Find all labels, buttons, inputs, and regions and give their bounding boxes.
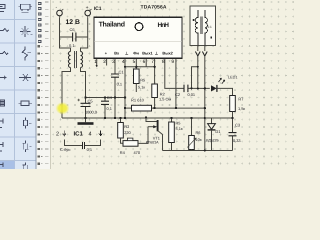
svg-text:R5: R5 <box>176 121 181 126</box>
pin6 stub <box>145 58 147 66</box>
pin7 stub <box>154 58 156 67</box>
junction at 232.5,118 <box>231 117 233 119</box>
svg-text:TDA7056A: TDA7056A <box>141 5 167 11</box>
pin5 stub <box>135 58 137 69</box>
palette r6c1 bracket <box>0 119 3 128</box>
svg-text:7: 7 <box>151 59 154 65</box>
transistor VT1 <box>146 118 163 151</box>
canvas edge <box>49 0 52 169</box>
pin numbers <box>94 59 174 65</box>
palette r1c1 partial box <box>0 5 5 12</box>
svg-text:+: + <box>86 5 89 11</box>
wire pin4 column <box>124 58 126 118</box>
palette r4c2 star with leads <box>19 74 31 81</box>
wire right column lower <box>204 57 206 151</box>
resistor R6 trimmer <box>187 118 195 151</box>
svg-text:1000,0: 1000,0 <box>85 109 98 114</box>
junction at 146,117.5 <box>145 116 147 118</box>
junction at 154.6,108.1 <box>153 107 155 109</box>
wire rail A <box>86 97 126 99</box>
wire mid rail right <box>205 117 233 119</box>
capacitor C4 <box>101 98 109 119</box>
junction at 197.8,88.4 <box>197 87 199 89</box>
resistor R5b <box>169 118 175 151</box>
transformer T1 primary winding <box>69 52 71 68</box>
output transformer box <box>190 6 215 46</box>
junction at 197.8,66.8 <box>197 66 199 68</box>
svg-text:R7: R7 <box>238 97 244 102</box>
pin function labels <box>105 51 174 56</box>
junction at 105,97.5 <box>104 96 106 98</box>
capacitor C3 <box>229 118 237 151</box>
grid dots <box>52 1 294 165</box>
svg-text:470: 470 <box>134 150 141 155</box>
svg-text:R3: R3 <box>124 124 129 129</box>
resistor R4 trimmer <box>123 127 148 147</box>
svg-text:HnH: HnH <box>158 22 170 29</box>
ot right winding <box>205 10 208 46</box>
bypass note block <box>56 131 102 152</box>
palette r2c1 squiggle <box>0 29 9 32</box>
resistor R2 body <box>152 67 158 108</box>
ruler ticks <box>45 2 49 164</box>
resistor R1 <box>125 105 205 111</box>
palette r7c1 bracket2 <box>0 142 3 151</box>
svg-text:Вх: Вх <box>114 51 120 56</box>
svg-text:C1: C1 <box>119 70 125 75</box>
palette r3c2 zigzag vertical <box>22 47 32 61</box>
svg-text:Фн: Фн <box>133 51 139 56</box>
svg-text:9: 9 <box>171 59 174 65</box>
svg-text:0,1: 0,1 <box>117 81 122 86</box>
svg-text:3: 3 <box>112 59 115 65</box>
junction dots <box>84 65 233 152</box>
note capacitor plates <box>83 142 85 149</box>
chevron left stub <box>197 46 199 51</box>
junction at 204.8,88.4 <box>204 87 206 89</box>
wire right supply <box>81 18 88 52</box>
svg-text:1: 1 <box>94 59 97 65</box>
svg-text:Вых1: Вых1 <box>142 51 153 56</box>
palette r5c1 block <box>0 100 5 106</box>
junction at 204.8,150.5 <box>204 149 206 151</box>
svg-text:⊥: ⊥ <box>155 51 159 56</box>
ot left winding <box>195 10 198 46</box>
note wire bracket <box>64 140 100 146</box>
wire mid rail <box>62 117 205 119</box>
transformer T1 secondary winding <box>81 52 83 68</box>
resistor R3 <box>118 118 124 143</box>
svg-text:C2: C2 <box>175 92 181 97</box>
component palette background <box>0 0 36 169</box>
capacitor C5 electrolytic <box>78 98 91 119</box>
svg-text:5,1к: 5,1к <box>138 84 145 89</box>
chip logo circle <box>135 23 143 31</box>
diode D1 <box>208 118 216 151</box>
palette r6c2 vertical component <box>24 118 32 129</box>
junction at 85.5,97.5 <box>84 96 86 98</box>
svg-text:C3: C3 <box>235 122 241 127</box>
svg-text:D1: D1 <box>215 129 221 134</box>
svg-text:0,1: 0,1 <box>69 43 75 48</box>
terminal minus <box>57 9 64 18</box>
toolbar strip <box>37 0 51 169</box>
junction at 154.6,66.8 <box>153 66 155 68</box>
junction at 136.3,66.8 <box>135 66 137 68</box>
toolbar ruler specks <box>38 2 43 165</box>
svg-text:8: 8 <box>162 59 165 65</box>
chevron right <box>202 52 207 57</box>
wire column pin3 gnd <box>114 98 116 119</box>
pin9 wire <box>175 58 177 108</box>
junction at 85.5,118 <box>84 117 86 119</box>
note arrow 2 <box>63 131 66 136</box>
svg-text:R5: R5 <box>140 77 145 82</box>
capacitor C6 <box>60 33 88 42</box>
junction at 171.5,118 <box>170 117 172 119</box>
wire bottom rail <box>163 150 233 152</box>
svg-text:0,01: 0,01 <box>188 92 196 97</box>
svg-text:Вых2: Вых2 <box>162 51 173 56</box>
svg-text:0,33: 0,33 <box>233 138 241 143</box>
svg-text:5,1к: 5,1к <box>176 126 183 131</box>
palette selected cell <box>0 161 15 169</box>
svg-text:C4: C4 <box>107 95 113 100</box>
svg-text:10к: 10к <box>196 137 202 142</box>
ground <box>78 118 94 124</box>
junction at 105,118 <box>104 117 106 119</box>
capacitor C2 <box>184 85 188 93</box>
canvas background <box>50 0 300 169</box>
junction at 115,97.5 <box>114 96 116 98</box>
junction at 125,108.1 <box>124 107 126 109</box>
svg-text:R6: R6 <box>196 130 201 135</box>
junction at 115,118 <box>114 117 116 119</box>
IC1 block <box>94 17 182 65</box>
svg-text:C5: C5 <box>88 99 94 104</box>
terminal plus <box>85 9 92 18</box>
junction at 191.5,88.4 <box>190 87 192 89</box>
resistor R5a body <box>134 69 140 92</box>
svg-text:IC1: IC1 <box>74 131 84 138</box>
junction at 125,66.8 <box>124 66 126 68</box>
svg-text:R1 610: R1 610 <box>131 97 145 102</box>
svg-text:220: 220 <box>124 130 131 135</box>
junction at 96.7,65.8 <box>96 65 98 67</box>
svg-text:4: 4 <box>89 131 92 137</box>
svg-text:2: 2 <box>56 131 59 137</box>
chevron left <box>195 52 200 57</box>
pin1 stub <box>96 58 98 65</box>
svg-text:6: 6 <box>143 59 146 65</box>
ot polarity dots <box>193 19 195 21</box>
svg-text:0,1: 0,1 <box>87 147 92 152</box>
junction at 204.8,118 <box>204 117 206 119</box>
svg-text:R4: R4 <box>120 150 126 155</box>
ot core <box>201 17 202 35</box>
pin8 wire to C2 <box>165 57 210 89</box>
wire left supply <box>60 18 71 52</box>
wire T1 right bottom <box>81 68 86 98</box>
svg-text:1,5к: 1,5к <box>238 106 245 111</box>
svg-text:С-бун: С-бун <box>60 147 70 152</box>
palette grid lines <box>0 0 36 169</box>
capacitor C1 <box>111 58 119 97</box>
palette r7c2 vertical component2 <box>23 141 32 153</box>
yellow highlight blob <box>56 102 70 115</box>
junction at 125,97.5 <box>124 96 126 98</box>
palette r8c1 selected symbol <box>0 163 3 168</box>
svg-text:1,5 Ом: 1,5 Ом <box>159 97 172 102</box>
svg-text:Thailand: Thailand <box>99 21 125 29</box>
palette symbols <box>0 4 33 172</box>
resistor R7 <box>230 96 236 119</box>
svg-text:4: 4 <box>122 59 125 65</box>
wire T1 left bottom <box>62 68 71 119</box>
svg-text:IC1: IC1 <box>94 6 102 12</box>
note arrow 4 <box>99 131 102 136</box>
wire right column <box>204 46 206 51</box>
palette r3c1 squiggle2 <box>0 52 8 55</box>
junction at 120.5,118 <box>119 117 121 119</box>
svg-text:0,1: 0,1 <box>107 106 112 111</box>
junction at 175.9,108.1 <box>175 107 177 109</box>
palette right border <box>36 0 37 169</box>
junction at 204.8,108.1 <box>204 107 206 109</box>
wire pin4 to pin7 <box>125 66 155 68</box>
svg-text:LED1: LED1 <box>228 76 238 80</box>
svg-text:12 В: 12 В <box>66 19 80 26</box>
LED1 <box>211 78 233 95</box>
svg-text:C6: C6 <box>70 27 76 32</box>
palette r1c2 box component <box>19 4 33 13</box>
palette r8c2 vertical component3 <box>23 163 29 173</box>
svg-text:5: 5 <box>133 59 136 65</box>
palette r2c2 starburst lamp <box>20 26 33 37</box>
transformer T1 core <box>75 51 77 68</box>
palette r4c1 arrows <box>0 76 6 79</box>
svg-text:КТ601А: КТ601А <box>146 141 159 145</box>
junction at 191.5,118 <box>190 117 192 119</box>
palette r5c2 box horizontal <box>19 101 33 106</box>
junction at 125,118 <box>124 117 126 119</box>
svg-text:КД522Б: КД522Б <box>206 139 220 143</box>
pin2 stub <box>106 58 108 65</box>
svg-text:1:1: 1:1 <box>207 25 212 29</box>
svg-text:2: 2 <box>103 59 106 65</box>
